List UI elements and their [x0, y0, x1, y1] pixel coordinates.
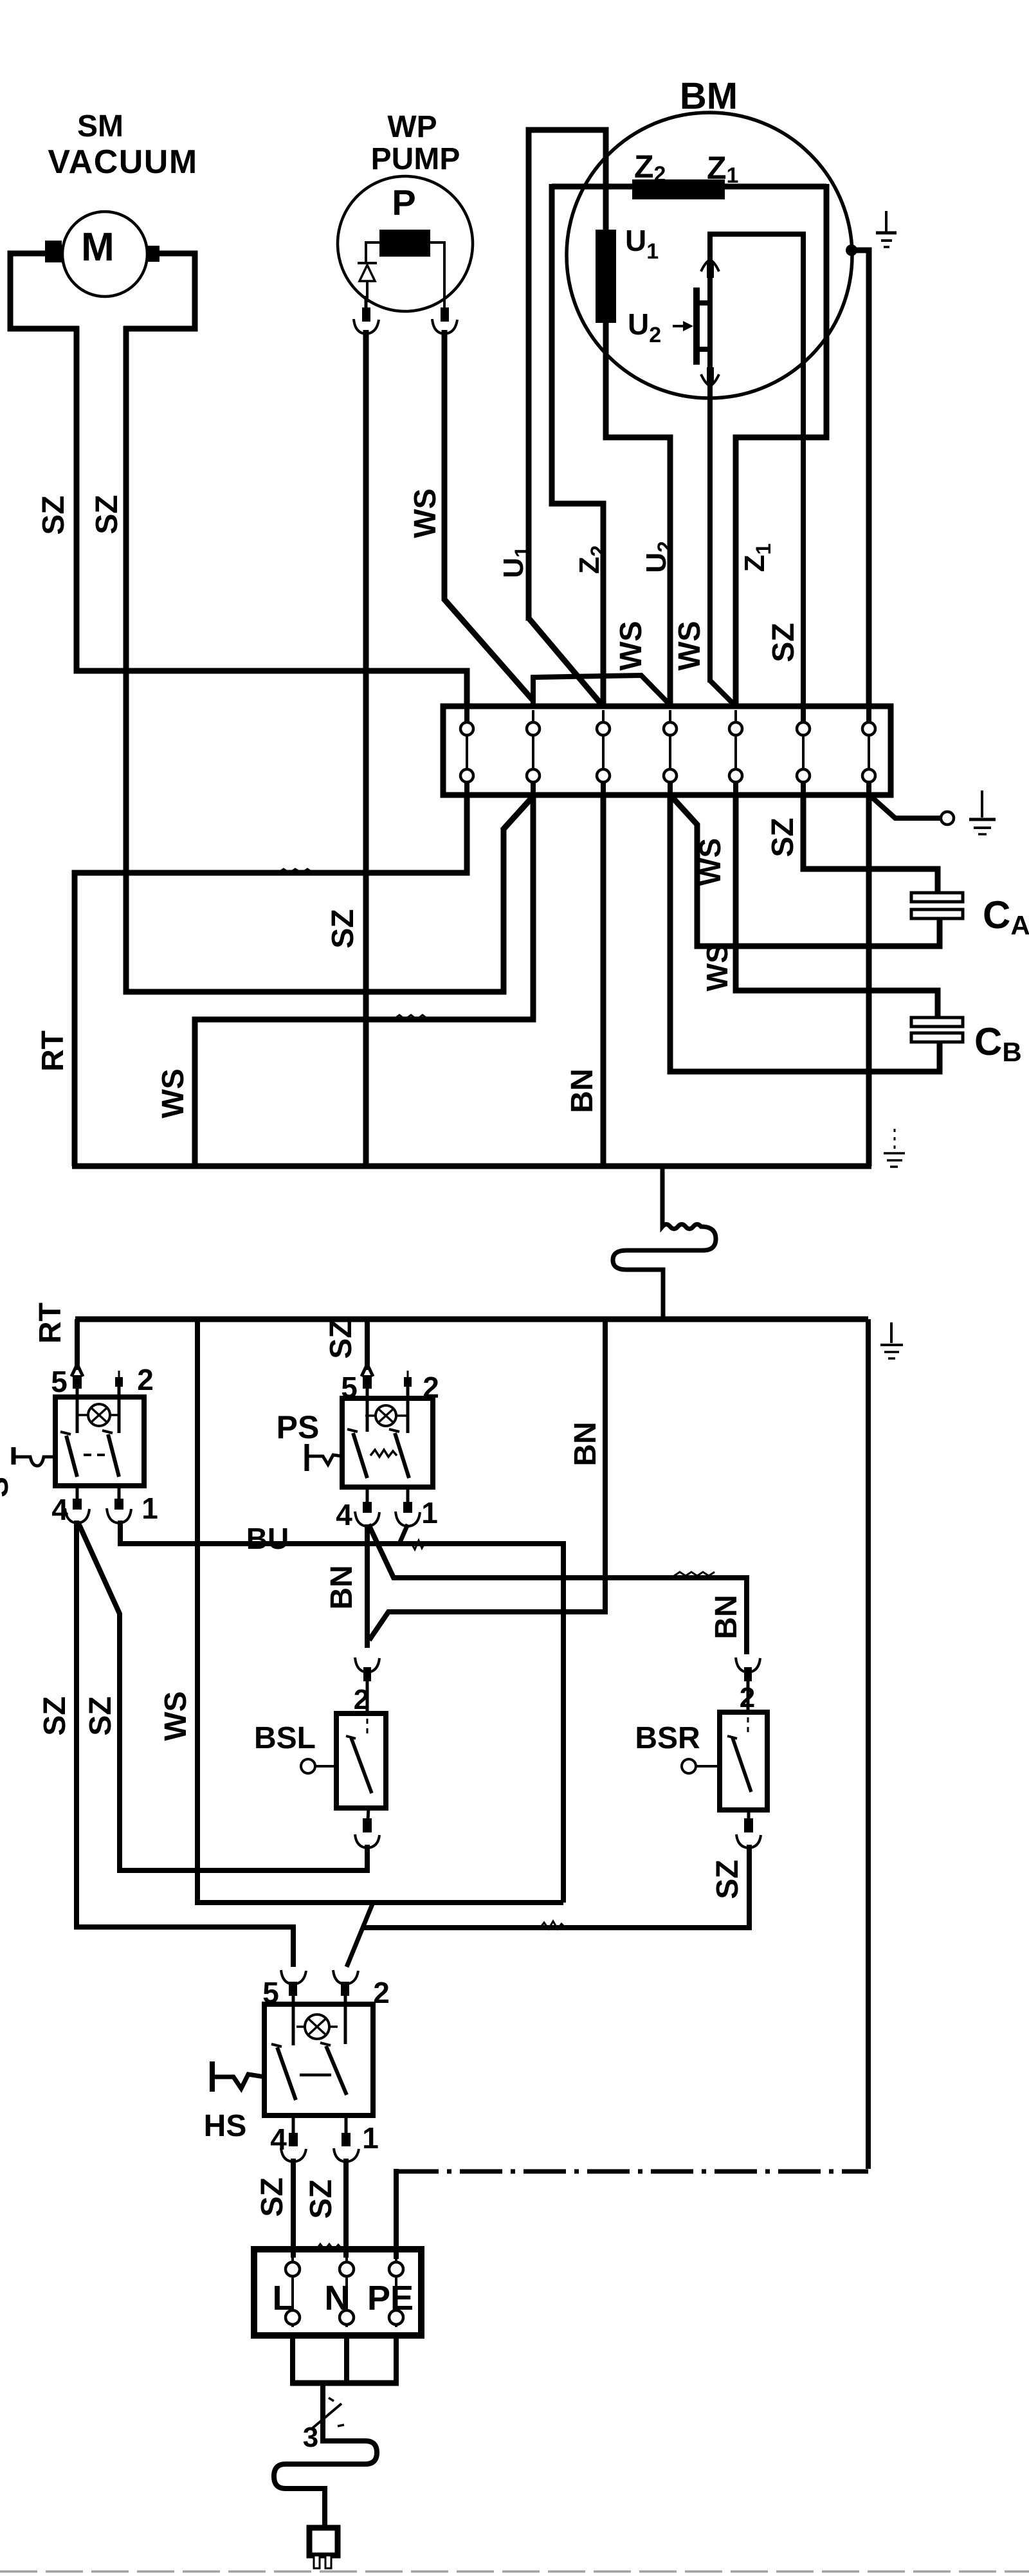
svg-text:SM: SM [77, 109, 123, 143]
svg-text:WS: WS [693, 838, 727, 886]
switch HS pin 5 [262, 1970, 306, 2045]
svg-text:BU: BU [246, 1522, 289, 1555]
svg-text:1: 1 [362, 2121, 379, 2155]
wire Z1 from winding right end to strip terminal 5 [736, 184, 826, 708]
label SZ (pin4 left wire) [38, 1696, 72, 1735]
lamp in left switch [77, 1404, 120, 1426]
wire earth bus upper [72, 1164, 871, 1169]
switch BSR pin 2 [736, 1658, 760, 1713]
svg-text:2: 2 [137, 1363, 154, 1396]
svg-text:BN: BN [569, 1421, 603, 1466]
wire SZ from HS pin 4 to terminal L [291, 2159, 296, 2258]
label SZ (pump left wire, below terminal strip) [326, 909, 360, 948]
label WS (CB top wire) [700, 944, 734, 991]
svg-text:PS: PS [277, 1409, 320, 1445]
switch HS box [264, 2004, 373, 2115]
mains terminal block L N PE [254, 2249, 421, 2335]
switch BSL box [336, 1713, 386, 1808]
squiggle on WS link wire [394, 1015, 428, 1019]
wire SZ drop to PS pin 5 [365, 1319, 370, 1370]
svg-text:4: 4 [270, 2123, 287, 2156]
switch PS box [342, 1398, 433, 1487]
svg-text:BSL: BSL [254, 1721, 316, 1755]
label BN (BSR feed) [709, 1594, 743, 1639]
svg-text:SZ: SZ [37, 495, 71, 534]
terminal strip (7-pole connector block) [443, 706, 891, 795]
label BU [246, 1522, 289, 1555]
svg-text:WS: WS [673, 621, 707, 670]
wire WS from tacho to strip terminal 5 [710, 681, 734, 704]
motor SM VACUUM label [48, 109, 197, 181]
wire SZ tacho loop to strip terminal 6 [710, 234, 803, 708]
svg-text:BN: BN [565, 1068, 599, 1113]
pump left terminal pin and hook [354, 296, 379, 334]
label WS (CA bottom wire) [693, 838, 727, 886]
wire BN from lower bus to BSL pin 2 [369, 1319, 605, 1640]
pump P (WP pump) [338, 176, 473, 311]
left switch pin 4 [51, 1486, 89, 1526]
wire U1 loop from BM to strip terminal 3 [529, 130, 606, 705]
squiggle on RT link wire [278, 869, 313, 873]
wire SZ from left switch pin 4 diagonal to BSL pin 1 return [78, 1522, 367, 1870]
ground symbol at upper bus right end [884, 1129, 905, 1167]
wire from terminal 7 to earth tag [871, 796, 954, 825]
wire harness connector between sections [613, 1166, 716, 1319]
BSR actuator [682, 1759, 720, 1773]
wire PE dash-dot link [396, 1319, 868, 2259]
ground symbol near strip [969, 790, 996, 834]
switch HS pin 1 [334, 2115, 379, 2162]
svg-text:M: M [81, 225, 114, 269]
pump right terminal pin and hook [430, 242, 457, 334]
switch HS pin 4 [270, 2115, 306, 2162]
thermal protector in pump [358, 242, 379, 302]
svg-text:5: 5 [51, 1365, 68, 1398]
wire WS from pump right terminal to strip terminal 2 [444, 330, 533, 700]
wire diagonal into HS pin 2 [347, 1903, 373, 1967]
wire BN from terminal 3 down to earth bus [601, 794, 606, 1166]
left switch actuator lever [14, 1447, 55, 1466]
svg-text:SZ: SZ [767, 623, 801, 662]
PS pin 1 [396, 1487, 438, 1530]
svg-text:WS: WS [614, 621, 648, 670]
left switch box [55, 1397, 144, 1486]
page edge dashed line [0, 2570, 1029, 2573]
label WS (left drop wire) [156, 1068, 190, 1118]
label U2 with arrow inside BM [628, 307, 693, 347]
label RT (wire) [36, 1030, 70, 1072]
wire U2 from U1 winding bottom to strip terminal 4 [606, 320, 670, 708]
tacho generator / armature of BM [693, 232, 719, 682]
wire BN from PS pin 4 to BSR pin 2 [369, 1524, 747, 1654]
wire SZ from terminal 2 down-left (to SM right leg) [502, 796, 533, 830]
PS contacts [347, 1371, 412, 1478]
label BN (bus drop) [569, 1421, 603, 1466]
svg-text:BN: BN [325, 1565, 359, 1609]
mains plug [309, 2528, 338, 2568]
svg-text:PUMP: PUMP [371, 142, 460, 176]
svg-text:WS: WS [159, 1691, 193, 1740]
node BM earth dot and wire to strip terminal 7 [846, 244, 869, 708]
label BN (wire) [565, 1068, 599, 1113]
svg-text:1: 1 [141, 1492, 158, 1525]
svg-text:WS: WS [700, 944, 734, 991]
switch BSR box [720, 1712, 767, 1810]
svg-text:RT: RT [36, 1030, 70, 1072]
label SZ (pin4 diagonal wire) [84, 1696, 118, 1735]
left switch pin 1 [107, 1486, 158, 1525]
BSL actuator [301, 1759, 336, 1773]
wire link terminal 2 to terminal 4 above strip [533, 675, 669, 706]
svg-text:2: 2 [373, 1976, 390, 2009]
svg-text:SZ: SZ [711, 1859, 745, 1899]
wire from terminal 4 to capacitor CB bottom [670, 794, 940, 1072]
wire Z2 from winding left end to strip terminal 3 [552, 184, 603, 708]
motor BM circle [567, 113, 852, 398]
wire RT drop to left switch pin 5 [75, 1319, 80, 1370]
winding Z2-Z1 of BM [552, 149, 826, 199]
switch BSL label [254, 1721, 316, 1755]
wire RT from terminal 1 to lower section [75, 794, 467, 1166]
wire PS pin 1 stub to BU node [399, 1524, 408, 1545]
switch BSL pin 1 [355, 1808, 379, 1848]
svg-text:WP: WP [387, 110, 437, 144]
squiggle on BSR return wire [540, 1921, 565, 1929]
svg-text:VACUUM: VACUUM [48, 143, 197, 181]
wire main bus lower section [75, 1317, 868, 1322]
svg-text:SZ: SZ [38, 1696, 72, 1735]
squiggle on terminal block top [316, 2244, 342, 2250]
wire SZ left leg of SM motor [10, 253, 467, 708]
label U2 (wire) [641, 541, 677, 573]
ground symbol right of BM [876, 211, 897, 247]
wire SZ to HS pin 5 [77, 1927, 293, 1967]
svg-text:BN: BN [709, 1594, 743, 1639]
HS contacts [271, 2043, 347, 2100]
svg-text:RT: RT [33, 1302, 68, 1344]
svg-text:PE: PE [367, 2279, 414, 2317]
ground symbol at lower bus right end [880, 1322, 903, 1358]
wire WS from terminal 5 to capacitor CB top [736, 794, 938, 1019]
label SZ (tacho loop wire) [767, 623, 801, 662]
label SZ (N wire) [304, 2179, 338, 2218]
wire SZ from BSR pin 1 to HS pin 2 node [364, 1845, 749, 1928]
svg-text:BSR: BSR [635, 1721, 700, 1755]
left switch contacts [60, 1371, 123, 1477]
svg-text:HS: HS [204, 2109, 247, 2143]
capacitor CA [911, 870, 1029, 940]
svg-text:4: 4 [51, 1493, 68, 1526]
label WS (pump right wire) [408, 488, 442, 538]
label WS (link wire) [614, 621, 648, 670]
svg-text:SZ: SZ [326, 909, 360, 948]
svg-text:4: 4 [336, 1498, 352, 1531]
wire SZ right leg of SM motor [123, 253, 533, 992]
label WS (lower wire) [159, 1691, 193, 1740]
wire SZ from left switch pin 4 straight down [74, 1521, 79, 1930]
svg-text:SZ: SZ [766, 818, 800, 857]
terminal stubs inside strip [467, 704, 869, 798]
svg-text:WS: WS [408, 488, 442, 538]
HS actuator lever [212, 2061, 264, 2092]
squiggle on BN wire to BSR [674, 1572, 715, 1576]
winding U1 of BM [596, 224, 659, 323]
switch PS pin 5 marker [341, 1364, 439, 1404]
BSL contact [346, 1719, 372, 1793]
wire WS from terminal 4 to capacitor CA bottom [671, 796, 940, 946]
BSR contact [727, 1717, 751, 1792]
svg-text:S: S [0, 1477, 15, 1497]
switch PS label [277, 1409, 320, 1445]
svg-text:SZ: SZ [90, 495, 124, 534]
wire SZ from pump left terminal down to earth bus [363, 330, 369, 1166]
label Z2 (wire) [574, 545, 610, 574]
svg-text:P: P [392, 182, 415, 223]
label U1 (wire) [498, 546, 534, 578]
lamp in PS [365, 1405, 407, 1426]
PS actuator lever [307, 1444, 342, 1471]
switch HS pin 2 [333, 1970, 390, 2044]
switch BSL pin 2 [354, 1658, 379, 1715]
svg-text:SZ: SZ [255, 2177, 289, 2216]
switch BSR label [635, 1721, 700, 1755]
label SZ (L wire) [255, 2177, 289, 2216]
svg-text:L: L [273, 2279, 294, 2317]
svg-text:BM: BM [680, 75, 738, 117]
capacitor CB [911, 1018, 1022, 1067]
label WS (tacho wire) [673, 621, 707, 670]
label SZ (CA top wire) [766, 818, 800, 857]
svg-text:1: 1 [421, 1496, 438, 1530]
label SZ (left leg) [37, 495, 71, 534]
mains cable and cord [274, 2335, 399, 2528]
motor BM label [680, 75, 738, 117]
wire PS pin 4 down to BSL pin 2 [365, 1524, 370, 1648]
label SZ (right leg) [90, 495, 124, 534]
svg-text:SZ: SZ [84, 1696, 118, 1735]
switch BSR pin 1 [736, 1810, 761, 1848]
svg-text:N: N [325, 2279, 350, 2317]
svg-text:SZ: SZ [324, 1319, 358, 1358]
cable 3x marker [303, 2398, 344, 2453]
svg-text:2: 2 [354, 1684, 369, 1715]
wire SZ from HS pin 1 to terminal N [343, 2159, 349, 2258]
wire WS from lower bus down [197, 1319, 563, 1903]
label Z1 (wire) [739, 544, 775, 572]
PS pin 4 [336, 1487, 379, 1531]
svg-text:WS: WS [156, 1068, 190, 1118]
wire WS from terminal 2 down to left drop [195, 794, 533, 1166]
squiggle on BU wire [412, 1540, 425, 1549]
wire BU from left switch pin 1 to PS pin 1 node [120, 1521, 563, 1903]
label RT (lower bus left end) [33, 1302, 68, 1344]
pump WP PUMP label [371, 110, 460, 176]
motor M (SM vacuum motor) [45, 212, 159, 297]
svg-text:2: 2 [740, 1682, 755, 1713]
switch HS label [204, 2109, 247, 2143]
partial label at image edge [0, 1477, 15, 1497]
label SZ (BSR return) [711, 1859, 745, 1899]
svg-text:3: 3 [303, 2422, 318, 2453]
svg-text:SZ: SZ [304, 2179, 338, 2218]
wire SZ from terminal 7 down to earth bus [866, 794, 872, 1166]
label SZ (PS feed) [324, 1319, 358, 1358]
wire SZ from terminal 6 to capacitor CA top [803, 794, 938, 894]
lamp in HS [296, 2014, 338, 2039]
label BN (near BSL) [325, 1565, 359, 1609]
left switch (clipped label) pin 5 marker [51, 1363, 154, 1398]
